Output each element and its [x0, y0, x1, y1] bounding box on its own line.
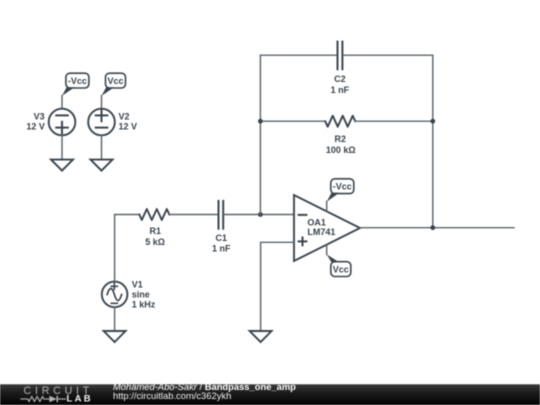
svg-text:V2: V2 [119, 112, 130, 122]
voltage source V3 [26, 109, 75, 136]
ground (op-amp non-inverting input) [250, 331, 272, 342]
wire top left to C2 [260, 54, 336, 56]
ground (V2) [91, 160, 113, 171]
wire V3 to ground [61, 135, 63, 159]
wire feedback right vertical [432, 55, 434, 228]
op-amp V+ pin wire [326, 201, 328, 211]
flag -Vcc (op-amp V+) [327, 179, 354, 202]
svg-text:Vcc: Vcc [333, 265, 349, 275]
svg-text:-Vcc: -Vcc [333, 182, 352, 192]
wire V1 to ground [114, 307, 116, 331]
voltage source V1 [102, 279, 156, 309]
svg-text:V1: V1 [132, 279, 143, 289]
svg-text:12 V: 12 V [26, 122, 45, 132]
footer title text [113, 381, 296, 401]
node output junction dot [430, 225, 435, 230]
svg-text:OA1: OA1 [307, 217, 326, 227]
svg-text:R2: R2 [335, 134, 347, 144]
resistor R1 [139, 209, 169, 247]
svg-text:C2: C2 [334, 74, 346, 84]
voltage source V2 [88, 109, 137, 136]
wire op-amp output [360, 227, 514, 229]
svg-text:100 kΩ: 100 kΩ [326, 145, 356, 155]
wire V3 flag pole [61, 96, 63, 109]
ground (V1) [104, 331, 126, 342]
wire V2 flag pole [101, 96, 103, 109]
node feedback left junction dot [258, 119, 263, 124]
svg-text:V3: V3 [34, 112, 45, 122]
wire feedback left vertical [259, 55, 261, 214]
svg-text:1 nF: 1 nF [331, 85, 350, 95]
wire V2 to ground [101, 135, 103, 159]
capacitor C2 [331, 42, 350, 95]
svg-text:LM741: LM741 [307, 227, 335, 237]
flag -Vcc (V3) [62, 73, 89, 96]
wire R2 right lead [355, 120, 433, 122]
resistor R2 [325, 116, 355, 155]
svg-text:-Vcc: -Vcc [68, 76, 87, 86]
svg-text:Vcc: Vcc [107, 76, 123, 86]
wire C1 to node A [224, 214, 260, 216]
node A junction dot [258, 212, 263, 217]
wire R1 to C1 [169, 214, 217, 216]
svg-text:5 kΩ: 5 kΩ [145, 237, 165, 247]
wire R2 left lead [260, 120, 325, 122]
svg-text:C1: C1 [216, 233, 228, 243]
CircuitLab logo [20, 385, 93, 405]
wire op-amp non-inverting input to ground [261, 242, 294, 331]
flag Vcc (op-amp V-) [327, 254, 351, 276]
flag Vcc (V2) [102, 73, 126, 96]
capacitor C1 [212, 201, 231, 253]
node feedback right junction dot [430, 119, 435, 124]
footer bar [0, 384, 540, 405]
wire C2 to top right [343, 54, 433, 56]
svg-text:1 nF: 1 nF [212, 243, 231, 253]
wire node A to op-amp inverting input [260, 214, 294, 216]
svg-text:1 kHz: 1 kHz [132, 299, 156, 309]
wire V1 up to R1 [115, 215, 140, 282]
op-amp OA1 [294, 195, 360, 261]
svg-text:R1: R1 [150, 226, 162, 236]
op-amp V- pin wire [326, 245, 328, 255]
svg-text:sine: sine [132, 289, 150, 299]
ground (V3) [51, 160, 73, 171]
svg-text:http://circuitlab.com/c362ykh: http://circuitlab.com/c362ykh [113, 390, 231, 401]
svg-text:LAB: LAB [67, 394, 93, 405]
svg-text:12 V: 12 V [119, 122, 138, 132]
